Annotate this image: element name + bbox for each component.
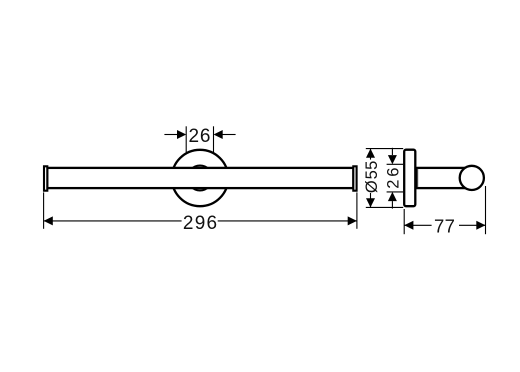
- front view: rosette inner circle Ø26: [188, 166, 213, 191]
- dim 296 (front bottom): dimension line right segment: [218, 220, 357, 222]
- dim 26 (side): top arrowhead: [388, 155, 397, 164]
- side view: arm joint line: [417, 169, 419, 187]
- dim 77 (side bottom): dimension line right segment: [459, 224, 486, 226]
- dim 77 (side bottom): left arrowhead: [404, 221, 413, 230]
- dim 26 (side): extension line bottom: [387, 191, 404, 193]
- dim 296 (front bottom): dimension line left segment: [44, 220, 182, 222]
- svg-text:77: 77: [434, 215, 455, 236]
- dim 77 (side bottom): extension line left: [403, 209, 405, 234]
- svg-text:Ø55: Ø55: [363, 161, 381, 194]
- svg-text:296: 296: [183, 213, 217, 234]
- svg-text:26: 26: [189, 126, 211, 147]
- front view: right end cap: [353, 166, 356, 190]
- dim Ø55 (side): bottom arrowhead: [366, 198, 375, 207]
- dim 26 (side): dimension line top segment: [391, 148, 393, 155]
- dim 26 (front top): right arrowhead: [214, 130, 223, 139]
- dim 296 (front bottom): extension line left: [43, 192, 45, 228]
- dim Ø55 (side): extension line bottom: [366, 206, 403, 208]
- dim 77 (side bottom): extension line right: [485, 186, 487, 234]
- dim 77 (side bottom): right arrowhead: [476, 221, 485, 230]
- front view: left end cap: [44, 166, 47, 190]
- dim Ø55 (side): extension line top: [366, 148, 403, 150]
- dim 26 (side): bottom arrowhead: [388, 192, 397, 201]
- front view: bar tube body: [47, 168, 353, 188]
- dim 26 (front top): right leader line: [222, 134, 236, 136]
- dim 26 (side): dimension line bottom segment: [391, 201, 393, 209]
- dim 26 (front top): extension line right: [213, 126, 215, 152]
- dim 296 (front bottom): extension line right: [356, 192, 358, 228]
- dim Ø55 (side): top arrowhead: [366, 149, 375, 158]
- dim 296 (front bottom): right arrowhead: [348, 216, 357, 225]
- side view: rosette plate (wall plate): [404, 150, 415, 207]
- dim Ø55 (side): dimension line bottom segment: [370, 193, 372, 207]
- side view: arm to ball: [417, 168, 472, 188]
- dim 26 (front top): extension line left: [185, 126, 187, 152]
- side view: ball end: [460, 166, 484, 190]
- dim Ø55 (side): dimension line top segment: [370, 149, 372, 160]
- dim 77 (side bottom): dimension line left segment: [404, 224, 431, 226]
- dim 296 (front bottom): left arrowhead: [44, 216, 53, 225]
- dim 26 (front top): left leader line: [164, 134, 178, 136]
- dim 26 (side): extension line top: [387, 163, 404, 165]
- front view: rosette outer circle Ø55: [172, 150, 228, 206]
- dim 26 (front top): left arrowhead: [177, 130, 186, 139]
